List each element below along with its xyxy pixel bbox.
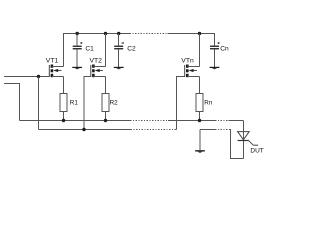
node C2 top junction — [117, 32, 120, 35]
node VT2 gate junction — [82, 128, 85, 131]
wire top rail dotted middle — [130, 33, 168, 35]
wire supply input line — [4, 84, 20, 121]
wire VTn drain riser — [199, 34, 201, 67]
wire anode bus solid left — [20, 120, 131, 122]
wire trigger input line — [4, 76, 49, 78]
transistor VT2 — [91, 65, 106, 78]
wire gate bus solid right — [175, 129, 177, 131]
wire VT2 drain riser — [105, 34, 107, 67]
node VTn drain junction — [198, 32, 201, 35]
node C1 top junction — [76, 32, 79, 35]
svg-text:VT1: VT1 — [46, 57, 59, 64]
wire anode bus dotted — [130, 120, 168, 122]
svg-text:VT2: VT2 — [90, 57, 103, 64]
wire ground branch solid to cathode — [229, 130, 244, 159]
capacitor Cn — [210, 34, 220, 68]
node Rn bottom junction — [198, 119, 201, 122]
svg-text:Rn: Rn — [204, 99, 213, 106]
svg-text:R2: R2 — [110, 99, 119, 106]
wire top rail solid left — [63, 33, 130, 35]
ground bottom — [195, 150, 205, 153]
wire VTn source drop — [199, 77, 201, 94]
ground under Cn — [210, 67, 220, 70]
resistor R2 — [102, 94, 109, 121]
svg-text:Cn: Cn — [220, 45, 229, 52]
svg-text:R1: R1 — [70, 99, 79, 106]
wire ground branch dotted — [215, 129, 229, 131]
capacitor C2 — [114, 34, 124, 68]
node R2 bottom junction — [104, 119, 107, 122]
capacitor C1 — [73, 34, 83, 68]
svg-text:C2: C2 — [127, 45, 136, 52]
wire anode bus dotted right — [215, 120, 229, 122]
resistor Rn — [196, 94, 203, 121]
ground under C1 — [72, 67, 82, 70]
wire anode bus solid right to DUT — [229, 120, 244, 122]
wire anode bus solid mid — [168, 120, 215, 122]
wire trigger bus drop — [38, 77, 40, 130]
svg-text:DUT: DUT — [250, 148, 263, 155]
wire VT2 gate lead — [84, 77, 91, 130]
transistor VT1 — [49, 65, 63, 78]
wire VT2 source drop — [105, 77, 107, 94]
thyristor DUT — [238, 121, 259, 159]
transistor VTn — [185, 65, 200, 78]
resistor R1 — [60, 94, 67, 121]
svg-text:VTn: VTn — [181, 57, 194, 64]
ground under C2 — [114, 67, 124, 70]
wire VTn gate lead — [177, 77, 185, 130]
node VT2 drain junction — [104, 32, 107, 35]
wire gate bus solid — [39, 129, 131, 131]
wire VT1 source drop — [63, 77, 65, 94]
node trigger bus junction — [37, 75, 40, 78]
wire ground drop — [199, 130, 201, 151]
svg-text:C1: C1 — [85, 45, 94, 52]
wire gate bus dotted — [131, 129, 175, 131]
node R1 bottom junction — [62, 119, 65, 122]
wire ground branch — [200, 129, 215, 131]
wire VT1 drain riser — [63, 34, 65, 67]
wire top rail solid right — [168, 33, 216, 35]
